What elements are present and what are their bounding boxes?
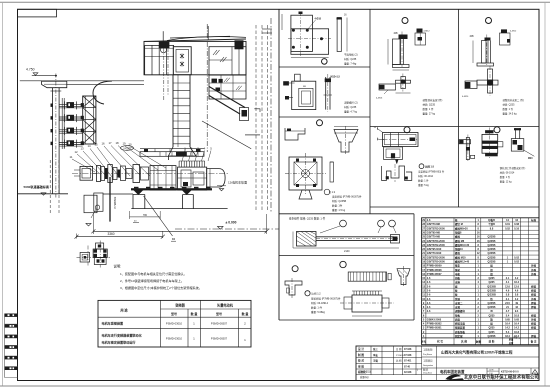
svg-text:/: / (417, 368, 418, 372)
svg-text:螺钉 M: 螺钉 M (455, 222, 463, 226)
svg-text:材质: 06-18914: 材质: 06-18914 (311, 301, 329, 305)
svg-text:焊接支座: 焊接支座 (454, 322, 466, 326)
small dims below foundation (129, 211, 131, 219)
cert triangle (532, 370, 538, 375)
svg-text:4.6: 4.6 (506, 289, 510, 292)
svg-text:垫圈10: 垫圈10 (455, 247, 463, 251)
M1 tee assembly (401, 77, 406, 89)
svg-text:数 量: 数 量 (190, 311, 198, 316)
svg-text:电机车固定装置: 电机车固定装置 (440, 369, 465, 374)
svg-text:2-6: 2-6 (427, 277, 431, 280)
svg-text:重量: 27 kg: 重量: 27 kg (423, 112, 436, 116)
leader lines left cluster (72, 159, 95, 172)
svg-text:GB/T95-M10: GB/T95-M10 (427, 248, 442, 251)
svg-text:代 号: 代 号 (436, 340, 443, 344)
svg-text:4-M20: 4-M20 (462, 96, 469, 98)
svg-text:平面垫板 (2): 平面垫板 (2) (344, 53, 358, 57)
svg-text:支架二: 支架二 (454, 301, 463, 305)
svg-text:07.40: 07.40 (404, 365, 411, 368)
svg-text:说明:: 说明: (114, 264, 122, 269)
svg-text:调整螺杆: 调整螺杆 (455, 309, 466, 313)
svg-text:P7MB-06508: P7MB-06508 (427, 269, 442, 272)
left margin signature tick marks (5, 314, 18, 317)
svg-text:KST10-06-Ø 0 0: KST10-06-Ø 0 0 (501, 370, 519, 373)
hoist dash-dot line (163, 48, 165, 101)
rail level line left (18, 193, 69, 195)
right panel grid (278, 9, 280, 320)
svg-text:± 0.000: ± 0.000 (226, 221, 237, 225)
svg-text:GB/T5780-2000: GB/T5780-2000 (427, 240, 446, 243)
svg-text:12: 12 (74, 150, 78, 154)
R1 tee assembly (488, 69, 493, 93)
L3 square flange (289, 157, 322, 190)
svg-text:李宏: 李宏 (372, 353, 378, 357)
gearbox (178, 167, 207, 190)
svg-text:GB/T70-M10: GB/T70-M10 (427, 252, 442, 255)
svg-text:9.4: 9.4 (515, 310, 519, 313)
svg-text:24.5: 24.5 (505, 302, 510, 305)
panel L1: base plate detail (291, 15, 313, 51)
panel M1 balloon (402, 18, 408, 24)
svg-text:2-6: 2-6 (427, 289, 431, 292)
svg-text:5.8: 5.8 (515, 294, 519, 297)
svg-text:2-6: 2-6 (427, 285, 431, 288)
panel M2: channel frame assembly (383, 133, 419, 147)
inclined chute (209, 87, 245, 108)
svg-text:材质: Q235: 材质: Q235 (344, 105, 357, 109)
svg-text:3、根据图中定位尺寸(本焦炉侧枕工2个锁位支架预埋系统。: 3、根据图中定位尺寸(本焦炉侧枕工2个锁位支架预埋系统。 (120, 285, 202, 290)
svg-text:焊接: 焊接 (530, 293, 537, 297)
svg-text:10: 10 (172, 237, 176, 241)
svg-text:数量: 1 件: 数量: 1 件 (423, 107, 434, 111)
company row with logo (446, 375, 461, 380)
svg-text:焊接: 焊接 (530, 322, 537, 326)
svg-text:数 量: 数 量 (241, 311, 249, 316)
svg-text:螺栓: 螺栓 (455, 235, 461, 239)
svg-text:4.2: 4.2 (515, 298, 519, 301)
svg-text:40B: 40B (470, 36, 475, 38)
svg-text:重量: 34.5 kg: 重量: 34.5 kg (503, 112, 518, 116)
svg-text:0.02: 0.02 (505, 227, 510, 230)
svg-text:外购: 外购 (531, 268, 537, 272)
title block (356, 346, 539, 381)
svg-text:Q/235B: Q/235B (487, 285, 496, 288)
svg-text:电机: 电机 (455, 272, 461, 276)
motor with fins (352, 295, 382, 312)
svg-text:0.01: 0.01 (505, 223, 510, 226)
svg-text:14: 14 (87, 144, 91, 148)
svg-text:重量: 7.4kg: 重量: 7.4kg (344, 62, 357, 66)
motor (150, 166, 176, 191)
top-left corner box (18, 9, 57, 17)
svg-text:Q235: Q235 (488, 331, 495, 334)
cabin window/door (173, 47, 191, 75)
shaft centerline (72, 172, 228, 174)
svg-text:0.02: 0.02 (514, 261, 519, 264)
svg-text:PSMD-06507: PSMD-06507 (211, 337, 228, 341)
svg-text:Q235B: Q235B (488, 244, 496, 247)
svg-text:支座焊接 (P7MB-06307)件: 支座焊接 (P7MB-06307)件 (332, 195, 362, 199)
M2 text (419, 164, 424, 169)
brake drum (207, 169, 225, 187)
svg-text:电机车紧锁装置: 电机车紧锁装置 (102, 321, 124, 326)
svg-text:12.6: 12.6 (514, 285, 519, 288)
svg-text:铁链: 铁链 (455, 297, 461, 301)
left support column (52, 88, 54, 194)
svg-text:P7MB-06507: P7MB-06507 (427, 273, 442, 276)
svg-text:4-M12: 4-M12 (510, 31, 517, 33)
page outer border (0, 1, 550, 3)
panel L1 balloon (322, 59, 328, 65)
svg-text:02.028: 02.028 (404, 371, 412, 374)
svg-text:Q235: Q235 (488, 277, 495, 280)
svg-text:17: 17 (108, 141, 112, 145)
svg-text:5.8: 5.8 (506, 294, 510, 297)
foundation base line (131, 208, 227, 210)
feeder truss column (83, 96, 96, 144)
svg-text:支座: 支座 (454, 280, 461, 284)
svg-text:标准: 标准 (530, 218, 537, 222)
svg-text:制 图: 制 图 (358, 353, 364, 357)
svg-text:焊接: 焊接 (530, 284, 537, 288)
scale & number cells (486, 368, 488, 374)
cable masts above cabin (162, 31, 164, 42)
svg-text:Q235B: Q235B (488, 306, 496, 309)
svg-text:2-6: 2-6 (427, 302, 431, 305)
svg-text:变频器: 变频器 (175, 303, 185, 308)
elevation 0.000 (218, 226, 224, 229)
svg-text:工程名称: 工程名称 (423, 348, 433, 352)
panel L3: bracket + funnel (285, 128, 305, 140)
svg-text:比例 1:2: 比例 1:2 (312, 292, 322, 296)
svg-text:Q235: Q235 (488, 314, 495, 317)
feeder arms with actuators (59, 103, 83, 105)
svg-text:Q235: Q235 (488, 281, 495, 284)
left roof slab and bracket (20, 80, 43, 82)
svg-text:13: 13 (80, 147, 84, 151)
svg-text:Proj Name: Proj Name (423, 353, 432, 356)
cabin railing left (145, 44, 174, 46)
svg-text:山西光大焦化气整有限公司120t/h干熄焦工程: 山西光大焦化气整有限公司120t/h干熄焦工程 (441, 350, 513, 355)
svg-text:调整螺杆 (2): 调整螺杆 (2) (344, 101, 358, 105)
svg-text:PSMD-03010: PSMD-03010 (166, 337, 183, 341)
svg-text:螺栓M8×20: 螺栓M8×20 (455, 226, 468, 230)
svg-text:PSMD-06507: PSMD-06507 (211, 322, 228, 326)
svg-text:11: 11 (70, 155, 73, 159)
gearbox fins (178, 161, 180, 167)
svg-text:Q235: Q235 (488, 327, 495, 330)
svg-text:2-6: 2-6 (427, 306, 431, 309)
svg-text:GB843-2000: GB843-2000 (427, 318, 442, 321)
svg-text:型号: 型号 (216, 311, 222, 316)
M2 boxed part (384, 147, 403, 160)
left drive unit (80, 166, 93, 180)
svg-text:GB/T95-M8: GB/T95-M8 (427, 232, 441, 235)
svg-text:链条组件 规格: Q235 数量: 1 件: 链条组件 规格: Q235 数量: 1 件 (289, 217, 326, 221)
svg-text:3360: 3360 (107, 232, 114, 236)
right lattice block below cabin (209, 75, 246, 99)
beam balloons (340, 220, 347, 227)
panel M2 balloon (404, 127, 410, 133)
svg-text:0.02: 0.02 (514, 256, 519, 259)
beam body (297, 232, 317, 247)
M1 small part top-right (417, 29, 423, 33)
svg-text:P7MB-06509: P7MB-06509 (427, 265, 442, 268)
svg-text:个别B: 个别B (487, 222, 495, 226)
svg-text:PSMD-03010: PSMD-03010 (166, 322, 183, 326)
svg-text:4.750: 4.750 (26, 68, 35, 72)
svg-text:P7MB-06302: P7MB-06302 (427, 323, 442, 326)
svg-text:焊接: 焊接 (530, 305, 537, 309)
svg-text:王强: 王强 (373, 359, 378, 363)
svg-text:外购: 外购 (531, 317, 537, 321)
R2 part C: vertical assembly (515, 128, 517, 139)
svg-text:外购: 外购 (531, 272, 537, 276)
BOM table (422, 218, 539, 345)
svg-text:Q/235B: Q/235B (487, 294, 496, 297)
panel R1 balloon (486, 18, 492, 24)
svg-text:14.2: 14.2 (505, 327, 510, 330)
left pulley block (159, 42, 170, 49)
cabin roof (144, 39, 246, 41)
svg-text:Drwg Nam: Drwg Nam (423, 372, 432, 375)
R1 small part top-right (501, 29, 507, 33)
svg-text:底板垫板: 底板垫板 (454, 330, 466, 334)
svg-text:2-6: 2-6 (427, 281, 431, 284)
svg-text:数量: 1 件: 数量: 1 件 (503, 107, 514, 111)
svg-text:0.65: 0.65 (514, 318, 519, 321)
svg-text:16.4: 16.4 (514, 281, 519, 284)
funnel right (397, 269, 410, 285)
svg-text:0.65: 0.65 (505, 318, 510, 321)
svg-text:Q235B: Q235B (488, 302, 496, 305)
svg-text:电机车走行变频器装置联动化: 电机车走行变频器装置联动化 (102, 333, 143, 338)
svg-text:12t电机车轨面: 12t电机车轨面 (228, 180, 247, 185)
roof line over feeder (43, 80, 144, 82)
svg-text:40B: 40B (394, 33, 399, 35)
svg-text:数量: 1 件: 数量: 1 件 (311, 306, 322, 310)
svg-text:调整顶丝支架二 (件): 调整顶丝支架二 (件) (503, 98, 525, 102)
svg-text:螺栓M10×30: 螺栓M10×30 (455, 243, 470, 247)
svg-text:螺栓 M10: 螺栓 M10 (455, 255, 466, 259)
svg-text:调整顶丝支架 (件): 调整顶丝支架 (件) (423, 98, 443, 102)
svg-text:图 名: 图 名 (423, 368, 429, 372)
svg-text:链条: 链条 (455, 264, 461, 268)
svg-text:0.08: 0.08 (514, 223, 519, 226)
zero level dash-dot (175, 228, 279, 230)
tower walls and ladder (172, 75, 174, 147)
svg-text:垫圈8: 垫圈8 (455, 231, 462, 235)
svg-text:锁紧装置: 锁紧装置 (455, 326, 466, 330)
anchor feet (134, 190, 142, 194)
svg-text:2.1: 2.1 (506, 298, 510, 301)
svg-text:底座: 底座 (454, 317, 461, 321)
machine baseplate band (131, 188, 212, 190)
svg-text:矢量电动机: 矢量电动机 (217, 303, 234, 308)
svg-text:Q235B: Q235B (488, 261, 496, 264)
svg-text:螺母: 螺母 (455, 251, 461, 255)
connector comb (348, 272, 386, 281)
svg-text:外购: 外购 (531, 264, 537, 268)
svg-text:外购: 外购 (531, 297, 537, 301)
cabin right section (209, 47, 246, 75)
svg-text:备 注: 备 注 (530, 340, 537, 344)
svg-text:工程项目: 工程项目 (423, 359, 433, 363)
ground line left of pedestal (103, 193, 133, 195)
svg-text:2、件号10铁链焊接现场焊接于电机车车架上。: 2、件号10铁链焊接现场焊接于电机车车架上。 (120, 278, 184, 283)
svg-text:12.6: 12.6 (505, 285, 510, 288)
svg-text:10.8: 10.8 (514, 314, 519, 317)
svg-text:链轮焊接 (P7MB-06307)件: 链轮焊接 (P7MB-06307)件 (311, 297, 341, 301)
svg-text:电机车锁定装置联动运行: 电机车锁定装置联动运行 (102, 340, 137, 345)
svg-text:材 料: 材 料 (488, 340, 495, 344)
thick jack screw line (109, 177, 111, 222)
svg-text:重量: 5.68kg: 重量: 5.68kg (311, 310, 326, 314)
bottom-left drive table (98, 300, 251, 347)
svg-text:5.4: 5.4 (506, 331, 510, 334)
right rail dashed verticals (255, 25, 257, 212)
svg-text:比例 1:5: 比例 1:5 (425, 164, 435, 168)
panel bottom-left: parts group (292, 266, 298, 272)
svg-text:材质: Q235: 材质: Q235 (344, 57, 357, 61)
svg-text:GB/T5782-2000: GB/T5782-2000 (427, 244, 446, 247)
svg-text:5060轨道基础标高: 5060轨道基础标高 (24, 184, 49, 189)
bottom text (305, 291, 310, 296)
svg-text:张三: 张三 (373, 347, 378, 351)
svg-text:焊接: 焊接 (530, 334, 537, 338)
M2 hat channel below (382, 166, 412, 180)
svg-text:Designation: Designation (423, 364, 433, 367)
R2 part B: sandwich stack (485, 130, 493, 133)
title block right section (435, 346, 437, 381)
svg-text:19: 19 (122, 142, 126, 146)
small ellipse balloon (121, 146, 134, 151)
left pit elevation marker (86, 223, 91, 226)
shaft coupling stack (97, 166, 101, 182)
svg-text:设 计: 设 计 (358, 347, 364, 351)
svg-text:垫板: 垫板 (455, 313, 461, 317)
lock device plan detail (96, 243, 104, 249)
svg-text:07.401: 07.401 (404, 360, 412, 363)
svg-text:4.1: 4.1 (506, 281, 510, 284)
svg-text:GB/T70-M8: GB/T70-M8 (427, 223, 441, 226)
svg-text:型号: 型号 (171, 311, 177, 316)
dimension 3360 (92, 213, 94, 234)
svg-text:校 对: 校 对 (357, 359, 364, 363)
svg-text:Q235B: Q235B (488, 236, 496, 239)
svg-text:Q235B: Q235B (488, 248, 496, 251)
tower flare (168, 147, 196, 160)
svg-text:2-6: 2-6 (427, 298, 431, 301)
svg-text:螺栓 M8: 螺栓 M8 (455, 239, 465, 243)
panel R2 balloon (494, 127, 500, 133)
cabin main box (144, 41, 246, 74)
svg-text:材质: Q235: 材质: Q235 (423, 103, 436, 107)
svg-text:2-6: 2-6 (427, 294, 431, 297)
svg-text:挡板: 挡板 (455, 276, 461, 280)
svg-text:Q235B: Q235B (488, 256, 496, 259)
svg-text:材质: Q235: 材质: Q235 (503, 103, 516, 107)
hanging cable hook curve (93, 81, 112, 104)
small bracket part (285, 281, 302, 295)
platform band under tower (140, 152, 204, 157)
L2 threaded rod (325, 77, 327, 110)
panel R2 part A: cross bracket (459, 140, 471, 144)
svg-text:用 途: 用 途 (119, 308, 128, 313)
svg-text:审 核: 审 核 (358, 364, 364, 368)
column base boxes (84, 195, 97, 213)
svg-text:焊接: 焊接 (530, 288, 537, 292)
svg-text:材质: Q235B: 材质: Q235B (332, 199, 347, 203)
catenary cable (167, 37, 246, 41)
svg-text:4.7: 4.7 (506, 310, 510, 313)
svg-text:日 期: 日 期 (396, 347, 402, 351)
svg-text:P7MB503: P7MB503 (113, 196, 117, 208)
leader to balloon 10 (144, 196, 173, 236)
svg-text:M12×1.5: M12×1.5 (331, 76, 341, 79)
svg-text:4.2: 4.2 (515, 277, 519, 280)
svg-text:07.028: 07.028 (404, 354, 412, 357)
svg-text:名 称: 名 称 (461, 340, 467, 344)
svg-text:螺栓M12×40: 螺栓M12×40 (455, 260, 470, 264)
svg-text:780: 780 (143, 214, 148, 217)
svg-text:07.028: 07.028 (404, 348, 412, 351)
svg-text:固定架: 固定架 (455, 334, 463, 338)
svg-text:16: 16 (101, 142, 105, 146)
svg-text:支架焊接 (P7MB-063) 件: 支架焊接 (P7MB-063) 件 (418, 170, 445, 174)
svg-text:数量: 数量 (476, 340, 482, 344)
svg-text:14.2: 14.2 (514, 327, 519, 330)
svg-text:P7MB-06301: P7MB-06301 (427, 327, 442, 330)
svg-text:材质: 06-1914: 材质: 06-1914 (418, 174, 434, 178)
svg-text:链轮: 链轮 (455, 268, 461, 272)
left rail dashed verticals (49, 160, 51, 214)
chute fixing box (240, 108, 249, 121)
svg-text:焊接: 焊接 (530, 301, 537, 305)
rail top marker right (219, 189, 223, 191)
svg-text:GB/T5783-2000: GB/T5783-2000 (427, 227, 446, 230)
svg-text:P7-M28: P7-M28 (396, 355, 404, 357)
svg-text:焊接: 焊接 (530, 313, 537, 317)
svg-text:重量: 1.5 kg: 重量: 1.5 kg (332, 208, 346, 212)
svg-text:5.4: 5.4 (506, 314, 510, 317)
svg-text:4-M16: 4-M16 (376, 98, 383, 100)
svg-text:2-6: 2-6 (427, 310, 431, 313)
svg-text:GB/T70-M8: GB/T70-M8 (427, 236, 441, 239)
svg-text:2.1: 2.1 (506, 277, 510, 280)
svg-text:数量: 1 件: 数量: 1 件 (418, 179, 429, 183)
signature grid (356, 351, 422, 353)
svg-text:2140: 2140 (344, 250, 350, 253)
svg-text:序号: 序号 (420, 340, 427, 344)
svg-text:1、装配图中与电机车相关定位尺寸需定位确认。: 1、装配图中与电机车相关定位尺寸需定位确认。 (120, 271, 187, 276)
svg-text:重量: 5 kg: 重量: 5 kg (418, 183, 429, 187)
svg-text:4-Ø18: 4-Ø18 (315, 18, 322, 21)
svg-text:Q/板B: Q/板B (488, 218, 495, 222)
svg-text:18: 18 (115, 141, 119, 145)
svg-text:GB/T5780-2000: GB/T5780-2000 (427, 261, 446, 264)
svg-text:重量: 4.7 kg: 重量: 4.7 kg (344, 110, 358, 114)
foundation pedestals profile (133, 195, 145, 209)
svg-text:8.8: 8.8 (490, 227, 494, 230)
svg-text:4.6: 4.6 (515, 289, 519, 292)
svg-text:2-6: 2-6 (427, 219, 431, 222)
svg-text:16.4: 16.4 (514, 323, 519, 326)
svg-text:M20: M20 (528, 158, 533, 160)
svg-text:比 例: 比 例 (396, 359, 402, 363)
svg-text:Q/235B: Q/235B (487, 289, 496, 292)
svg-text:Q235B: Q235B (488, 252, 496, 255)
